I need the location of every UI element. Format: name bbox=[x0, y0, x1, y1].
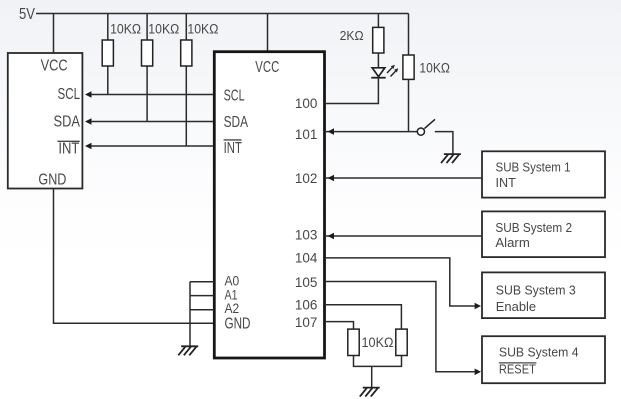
svg-text:10KΩ: 10KΩ bbox=[419, 61, 450, 76]
wire U2 VCC stub bbox=[267, 14, 269, 52]
wire A0 stub bbox=[190, 281, 214, 283]
svg-text:SDA: SDA bbox=[224, 114, 249, 131]
resistor R4 2K bbox=[373, 14, 384, 68]
svg-text:GND: GND bbox=[225, 316, 251, 333]
wire SCL net bbox=[85, 91, 214, 98]
svg-text:100: 100 bbox=[295, 96, 318, 111]
resistor R5 10K bbox=[403, 55, 414, 132]
svg-text:INT: INT bbox=[496, 175, 516, 190]
svg-text:10KΩ: 10KΩ bbox=[148, 22, 179, 37]
wire pin 101 to switch bbox=[326, 128, 417, 135]
pin label U2 INT (active low) bbox=[224, 140, 243, 157]
wire U1 VCC stub bbox=[53, 14, 55, 54]
wire A-bus to ground bbox=[189, 282, 191, 346]
wire pin 104 to SUB3 bbox=[326, 258, 481, 309]
ground GND1 (switch) bbox=[441, 154, 461, 163]
ground GND2 (address pins) bbox=[178, 346, 198, 355]
wire LED to pin 100 bbox=[326, 79, 378, 104]
svg-text:SCL: SCL bbox=[58, 86, 81, 103]
svg-text:SUB System 4: SUB System 4 bbox=[499, 346, 579, 360]
svg-text:5V: 5V bbox=[19, 6, 36, 23]
resistor R3 10K bbox=[181, 14, 192, 147]
svg-text:SDA: SDA bbox=[54, 113, 81, 130]
box SUB System 1 bbox=[482, 151, 605, 197]
wire SDA net bbox=[85, 118, 214, 125]
svg-text:INT: INT bbox=[224, 140, 243, 157]
svg-text:VCC: VCC bbox=[41, 57, 68, 74]
svg-text:Enable: Enable bbox=[496, 300, 536, 314]
svg-text:106: 106 bbox=[295, 297, 318, 312]
resistor R6 10K bbox=[348, 329, 359, 355]
IC U2 (main expander) bbox=[214, 52, 324, 358]
svg-text:INT: INT bbox=[58, 140, 79, 157]
wire 5V top rail bbox=[36, 13, 409, 15]
svg-text:SUB System 1: SUB System 1 bbox=[496, 161, 571, 175]
svg-text:SCL: SCL bbox=[224, 87, 245, 104]
svg-text:SUB System 3: SUB System 3 bbox=[496, 284, 576, 298]
svg-text:RESET: RESET bbox=[499, 362, 536, 376]
svg-text:Alarm: Alarm bbox=[495, 236, 529, 250]
resistor R2 10K bbox=[142, 14, 153, 122]
wire pin 102 to SUB1 bbox=[326, 175, 482, 182]
svg-text:2KΩ: 2KΩ bbox=[340, 28, 364, 43]
svg-text:105: 105 bbox=[295, 275, 318, 290]
svg-text:101: 101 bbox=[295, 127, 318, 142]
wire pin 106 to R7 bbox=[326, 305, 401, 329]
svg-text:103: 103 bbox=[295, 227, 318, 242]
IC U1 (left controller box) bbox=[8, 53, 83, 189]
wire rail corner to R5 bbox=[408, 14, 410, 56]
box SUB System 2 bbox=[482, 211, 605, 257]
resistor R1 10K bbox=[102, 14, 113, 95]
box SUB System 4 bbox=[482, 336, 605, 383]
resistor R7 10K bbox=[396, 329, 407, 355]
svg-text:GND: GND bbox=[38, 172, 66, 189]
pin label U1 INT (active low) bbox=[57, 140, 79, 157]
box SUB System 3 bbox=[482, 272, 605, 318]
wire A2 stub bbox=[190, 309, 214, 311]
wire pin 105 to SUB4 bbox=[326, 282, 481, 376]
svg-text:107: 107 bbox=[295, 315, 318, 330]
svg-text:10KΩ: 10KΩ bbox=[362, 335, 394, 350]
wire pin 107 to R6 bbox=[326, 322, 354, 330]
wire U1 GND to U2 GND bbox=[54, 189, 215, 324]
LED D1 bbox=[371, 65, 398, 78]
label SUB4 RESET (active low) bbox=[499, 362, 537, 376]
svg-text:VCC: VCC bbox=[255, 59, 279, 76]
ground GND3 (pull-down resistors) bbox=[360, 388, 380, 397]
wire INT net bbox=[85, 143, 214, 150]
svg-text:10KΩ: 10KΩ bbox=[187, 22, 218, 37]
wire A1 stub bbox=[190, 295, 214, 297]
switch SW1 bbox=[417, 119, 453, 154]
svg-text:104: 104 bbox=[295, 251, 318, 266]
svg-text:SUB System 2: SUB System 2 bbox=[495, 221, 572, 235]
wire pin 103 to SUB2 bbox=[326, 233, 482, 240]
svg-text:102: 102 bbox=[295, 171, 318, 186]
svg-text:10KΩ: 10KΩ bbox=[110, 22, 141, 37]
wire R6 R7 to ground bbox=[354, 356, 402, 388]
